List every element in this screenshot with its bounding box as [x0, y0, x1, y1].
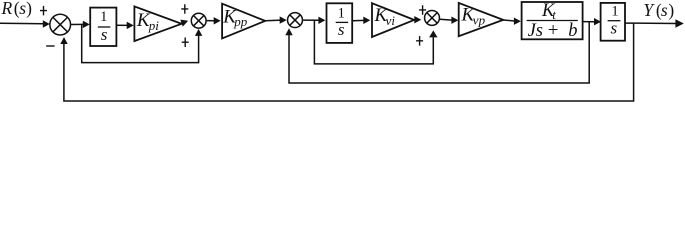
- svg-text:): ): [26, 0, 32, 18]
- svg-text:R: R: [1, 0, 13, 18]
- svg-text:1: 1: [611, 3, 618, 19]
- svg-text:Js: Js: [528, 21, 543, 41]
- svg-text:): ): [668, 0, 674, 20]
- svg-text:1: 1: [100, 9, 107, 25]
- svg-text:pp: pp: [233, 14, 248, 29]
- svg-text:vi: vi: [386, 13, 396, 28]
- svg-text:Y: Y: [643, 0, 655, 20]
- svg-text:s: s: [338, 20, 345, 39]
- svg-text:pi: pi: [148, 18, 160, 33]
- svg-text:1: 1: [338, 6, 345, 22]
- svg-text:s: s: [661, 0, 668, 20]
- svg-text:s: s: [101, 25, 108, 44]
- svg-text:+: +: [548, 20, 559, 41]
- svg-text:vp: vp: [473, 13, 486, 28]
- svg-text:b: b: [568, 21, 577, 41]
- svg-text:s: s: [610, 18, 617, 37]
